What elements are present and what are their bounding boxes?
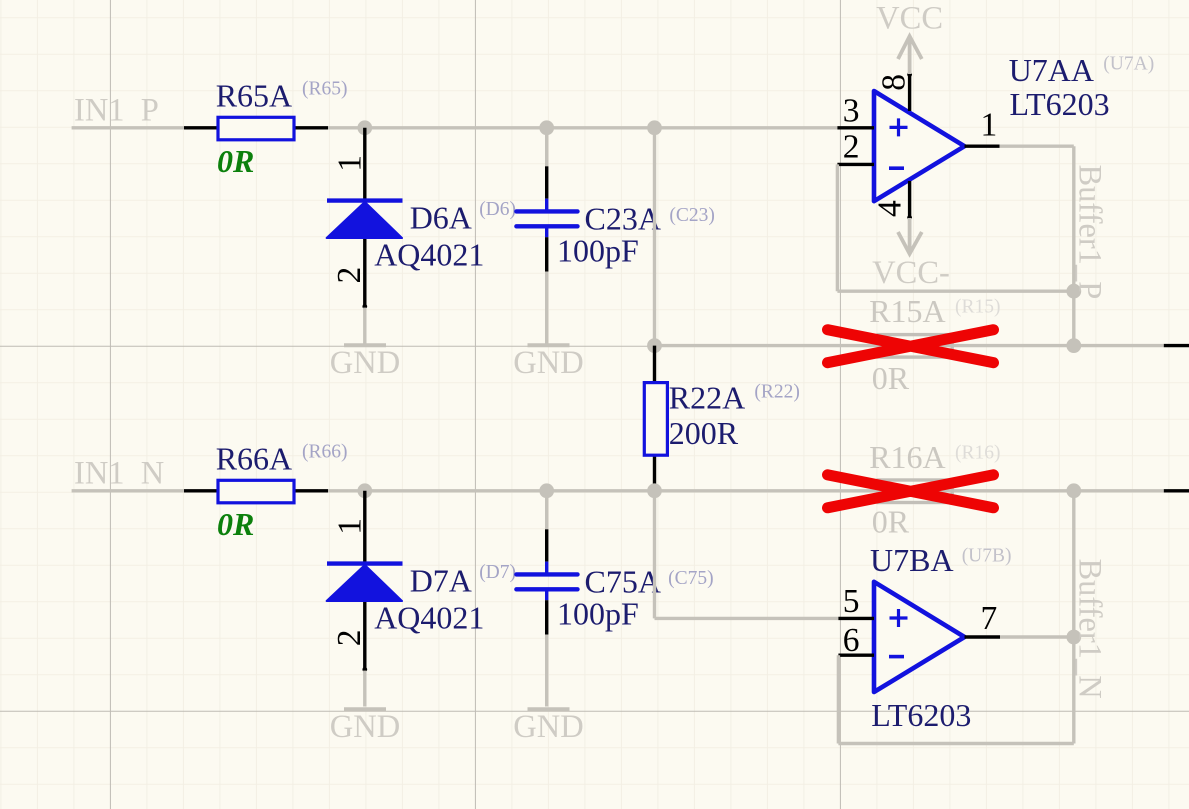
svg-text:R16A: R16A: [869, 439, 945, 475]
svg-text:U7AA: U7AA: [1009, 52, 1094, 88]
power VCC- arrow: [872, 218, 950, 291]
wire pin5 feed horizontal: [655, 617, 839, 620]
junction node bot-1: [357, 483, 372, 498]
wire U7BA output: [1000, 635, 1074, 638]
svg-text:(U7A): (U7A): [1103, 54, 1154, 75]
no-fit cross R15A: [828, 330, 994, 363]
wire U7BA feedback bottom: [838, 742, 1073, 745]
wire diode D7A branch: [363, 491, 366, 671]
junction node feedback: [1066, 284, 1081, 299]
wire capacitor C75A branch: [545, 491, 548, 530]
svg-text:D7A: D7A: [410, 563, 472, 599]
junction node U7BA output: [1066, 630, 1081, 645]
svg-text:D6A: D6A: [410, 200, 472, 236]
svg-text:6: 6: [843, 622, 860, 659]
pin 1 U7AA: [965, 107, 1000, 147]
power VCC arrow: [876, 0, 943, 74]
svg-text:VCC: VCC: [876, 0, 943, 36]
svg-text:R15A: R15A: [869, 293, 945, 329]
svg-text:(C75): (C75): [668, 568, 714, 589]
svg-text:LT6203: LT6203: [1010, 86, 1110, 122]
svg-text:0R: 0R: [872, 504, 910, 540]
svg-text:2: 2: [331, 267, 368, 284]
svg-text:5: 5: [843, 583, 860, 620]
resistor R22A: [644, 346, 667, 491]
wire U7AA feedback left vertical: [836, 164, 839, 291]
ground GND1: [330, 345, 400, 381]
svg-text:AQ4021: AQ4021: [374, 600, 484, 636]
pin 6 U7BA: [838, 622, 874, 659]
wire capacitor C23A branch: [545, 128, 548, 167]
wire net2 bottom horizontal: [328, 489, 1164, 492]
svg-text:R65A: R65A: [216, 78, 292, 114]
resistor R16A (not fitted): [878, 480, 952, 503]
wire IN1_P: [72, 126, 184, 129]
svg-text:(R66): (R66): [302, 442, 348, 463]
wire diode D6A branch: [363, 128, 366, 308]
svg-text:1: 1: [981, 107, 998, 144]
pin 3 U7AA: [837, 92, 874, 129]
junction node top-2: [539, 120, 554, 135]
svg-text:N: N: [141, 455, 164, 491]
wire mid net stub black right: [1164, 344, 1189, 347]
op-amp U7AA: [874, 91, 965, 201]
wire U7BA feedback left vertical: [837, 655, 840, 743]
pin 4 U7AA: [871, 181, 912, 220]
svg-text:R22A: R22A: [669, 380, 745, 416]
svg-text:(R65): (R65): [302, 79, 348, 100]
svg-text:GND: GND: [513, 709, 583, 745]
svg-text:IN1: IN1: [74, 92, 125, 128]
svg-text:1: 1: [331, 155, 368, 172]
wire U7AA output: [1000, 144, 1074, 147]
svg-text:C23A: C23A: [585, 201, 661, 237]
svg-text:AQ4021: AQ4021: [374, 237, 484, 273]
pin 7 U7BA: [965, 600, 1001, 637]
junction node bot-3: [647, 483, 662, 498]
junction node top-1: [357, 120, 372, 135]
wire bottom net stub black right: [1164, 489, 1189, 492]
svg-text:3: 3: [843, 92, 860, 129]
svg-text:0R: 0R: [217, 143, 254, 179]
wire U7AA feedback bottom: [837, 290, 1073, 293]
wire U7BA feedback right vertical: [1072, 637, 1075, 744]
svg-text:R66A: R66A: [216, 441, 292, 477]
svg-text:7: 7: [981, 600, 998, 637]
wire middle branch vertical: [653, 128, 656, 346]
svg-text:1: 1: [331, 518, 368, 535]
svg-text:(R15): (R15): [955, 297, 1001, 318]
svg-text:Buffer1_P: Buffer1_P: [1072, 165, 1108, 300]
svg-text:(D7): (D7): [479, 562, 516, 583]
wire U7AA feedback right vertical: [1072, 146, 1075, 345]
svg-text:100pF: 100pF: [557, 596, 639, 632]
wire net1 top horizontal: [328, 126, 837, 129]
wire pin5 feed vertical: [653, 491, 656, 619]
wire mid net horizontal: [655, 344, 1164, 347]
svg-text:P: P: [141, 92, 159, 128]
svg-text:GND: GND: [513, 345, 583, 381]
wire IN1_N: [72, 489, 184, 492]
pin 5 U7BA: [838, 583, 874, 620]
svg-text:2: 2: [843, 129, 860, 166]
svg-text:(C23): (C23): [669, 205, 715, 226]
resistor R65A: [184, 117, 328, 140]
pin 2 U7AA: [837, 129, 874, 166]
svg-text:C75A: C75A: [585, 564, 661, 600]
junction node bot-2: [539, 483, 554, 498]
junction node bot-4: [1066, 483, 1081, 498]
resistor R66A: [184, 480, 328, 503]
ground GND3: [330, 709, 400, 745]
svg-text:(D6): (D6): [479, 199, 516, 220]
svg-text:8: 8: [875, 74, 912, 91]
svg-text:IN1: IN1: [74, 455, 125, 491]
capacitor C23A: [516, 211, 577, 226]
svg-text:(U7B): (U7B): [962, 546, 1012, 567]
svg-text:2: 2: [331, 630, 368, 647]
resistor R15A (not fitted): [878, 335, 952, 358]
svg-text:0R: 0R: [872, 360, 910, 396]
svg-text:(R16): (R16): [955, 443, 1001, 464]
junction node mid-1: [647, 338, 662, 353]
op-amp U7BA: [874, 582, 965, 692]
svg-text:GND: GND: [330, 345, 400, 381]
svg-text:4: 4: [871, 200, 908, 217]
wire Buffer1_N vertical: [1072, 491, 1075, 637]
diode D6A: [327, 201, 403, 238]
svg-text:200R: 200R: [669, 415, 739, 451]
junction node top-3: [647, 120, 662, 135]
junction node mid-2: [1066, 338, 1081, 353]
svg-text:VCC-: VCC-: [872, 255, 950, 291]
capacitor C75A: [516, 574, 577, 589]
pin 8 U7AA: [875, 72, 912, 111]
diode D7A: [327, 564, 403, 601]
ground GND2: [513, 345, 583, 381]
svg-text:0R: 0R: [217, 506, 254, 542]
svg-text:(R22): (R22): [754, 382, 800, 403]
svg-text:Buffer1_N: Buffer1_N: [1072, 559, 1108, 699]
no-fit cross R16A: [828, 475, 994, 508]
svg-text:100pF: 100pF: [557, 233, 639, 269]
svg-text:LT6203: LT6203: [871, 697, 971, 733]
svg-text:GND: GND: [330, 709, 400, 745]
ground GND4: [513, 709, 583, 745]
svg-text:U7BA: U7BA: [870, 542, 954, 578]
